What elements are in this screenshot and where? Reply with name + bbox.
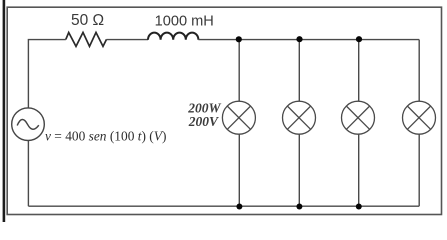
svg-text:200V: 200V (188, 114, 219, 129)
svg-text:50 Ω: 50 Ω (71, 12, 104, 29)
svg-text:v = 400 sen (100 t) (V): v = 400 sen (100 t) (V) (45, 129, 166, 144)
svg-text:1000 mH: 1000 mH (155, 14, 214, 30)
